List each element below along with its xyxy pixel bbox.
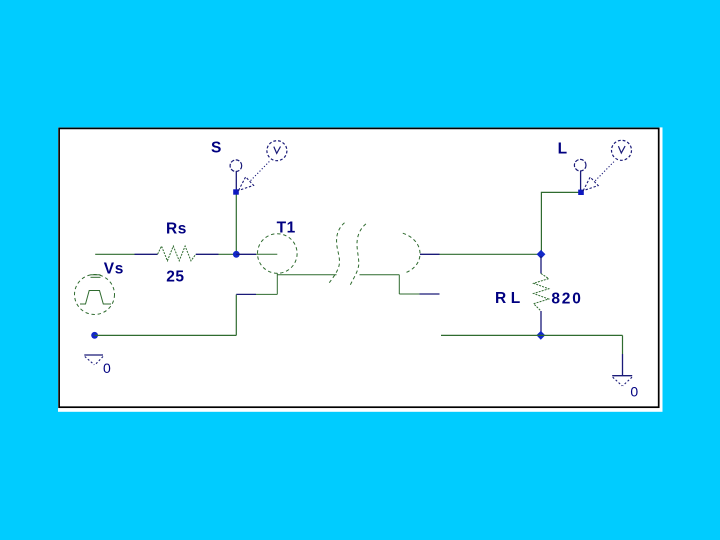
ground left dashed vee xyxy=(85,357,95,365)
marker S attachment square (node S) xyxy=(233,189,239,194)
wire down to ground (right) xyxy=(622,335,624,354)
Vs pulse waveform xyxy=(80,291,111,305)
marker L arrowhead xyxy=(583,177,598,191)
node dot Vs bottom xyxy=(91,332,98,339)
bottom right wire xyxy=(441,334,623,336)
marker L meter V glyph xyxy=(618,146,625,153)
svg-text:820: 820 xyxy=(551,290,582,307)
T1 center conductor line xyxy=(256,253,277,255)
Rs pin 2 xyxy=(196,253,219,255)
resistor Rs xyxy=(135,246,219,261)
wire Rs to junction xyxy=(219,253,237,255)
Rs zigzag body xyxy=(158,246,196,261)
marker L attachment square (node L) xyxy=(578,190,584,195)
svg-text:RL: RL xyxy=(495,290,525,307)
Rs pin 1 xyxy=(135,253,158,255)
Vs source circle xyxy=(75,275,115,315)
wire RL junction up and to marker L xyxy=(541,192,580,254)
wire T1 B+ to RL top junction xyxy=(440,253,542,255)
marker S arrow shaft xyxy=(251,162,270,181)
voltage marker L xyxy=(574,140,631,195)
svg-text:S: S xyxy=(211,139,222,156)
T1 B- pin xyxy=(420,293,440,295)
svg-text:Rs: Rs xyxy=(166,220,187,237)
voltage marker S xyxy=(230,141,287,195)
marker L probe tip circle xyxy=(574,159,586,171)
marker S meter circle xyxy=(267,141,287,161)
T1 shield drop xyxy=(276,273,278,294)
T1 right step xyxy=(398,275,400,294)
bottom left wire xyxy=(95,334,237,336)
T1 A- pin xyxy=(236,293,256,295)
marker S probe tip circle xyxy=(230,160,242,172)
T1 cable bottom line xyxy=(277,274,336,276)
transmission line T1 xyxy=(236,223,439,295)
ground right bar xyxy=(612,375,632,377)
svg-text:Vs: Vs xyxy=(104,260,124,277)
resistor RL xyxy=(534,256,549,333)
T1 break curve 1 xyxy=(329,223,344,283)
ground left bar xyxy=(84,354,103,356)
svg-text:25: 25 xyxy=(166,269,184,286)
marker L arrow shaft xyxy=(595,162,614,181)
svg-text:L: L xyxy=(558,140,568,157)
wire up from bottom to T1 A- pin xyxy=(235,295,237,336)
voltage source Vs xyxy=(75,275,115,315)
schematic border frame xyxy=(59,128,659,407)
Vs plus terminal marks xyxy=(91,274,101,276)
marker L meter circle xyxy=(612,140,632,160)
ground right dashed vee xyxy=(613,377,622,386)
RL pin 2 xyxy=(540,311,542,333)
ground 0 (right) xyxy=(612,376,632,386)
T1 left end circle xyxy=(258,234,298,274)
T1 B+ pin xyxy=(420,253,440,255)
ground 0 (left) xyxy=(84,355,103,365)
T1 break curve 2 xyxy=(350,224,366,286)
wire from Vs top to Rs xyxy=(95,253,134,255)
svg-text:0: 0 xyxy=(103,360,111,376)
marker L probe stem xyxy=(580,171,582,191)
slide white page xyxy=(58,127,663,411)
node dot RL top xyxy=(537,250,546,259)
marker S arrowhead xyxy=(239,177,254,191)
wire junction up to marker S node xyxy=(235,193,237,254)
node dot RL bottom xyxy=(536,331,545,340)
svg-text:T1: T1 xyxy=(277,220,296,237)
svg-text:0: 0 xyxy=(630,384,638,400)
RL pin 1 xyxy=(540,256,542,274)
T1 A+ pin xyxy=(236,253,256,255)
marker S meter V glyph xyxy=(274,147,281,154)
RL zigzag body xyxy=(534,274,549,312)
T1 right end arc xyxy=(403,233,420,273)
marker S probe stem xyxy=(235,172,237,191)
node junction dot (Rs/T1/S) xyxy=(233,251,240,258)
